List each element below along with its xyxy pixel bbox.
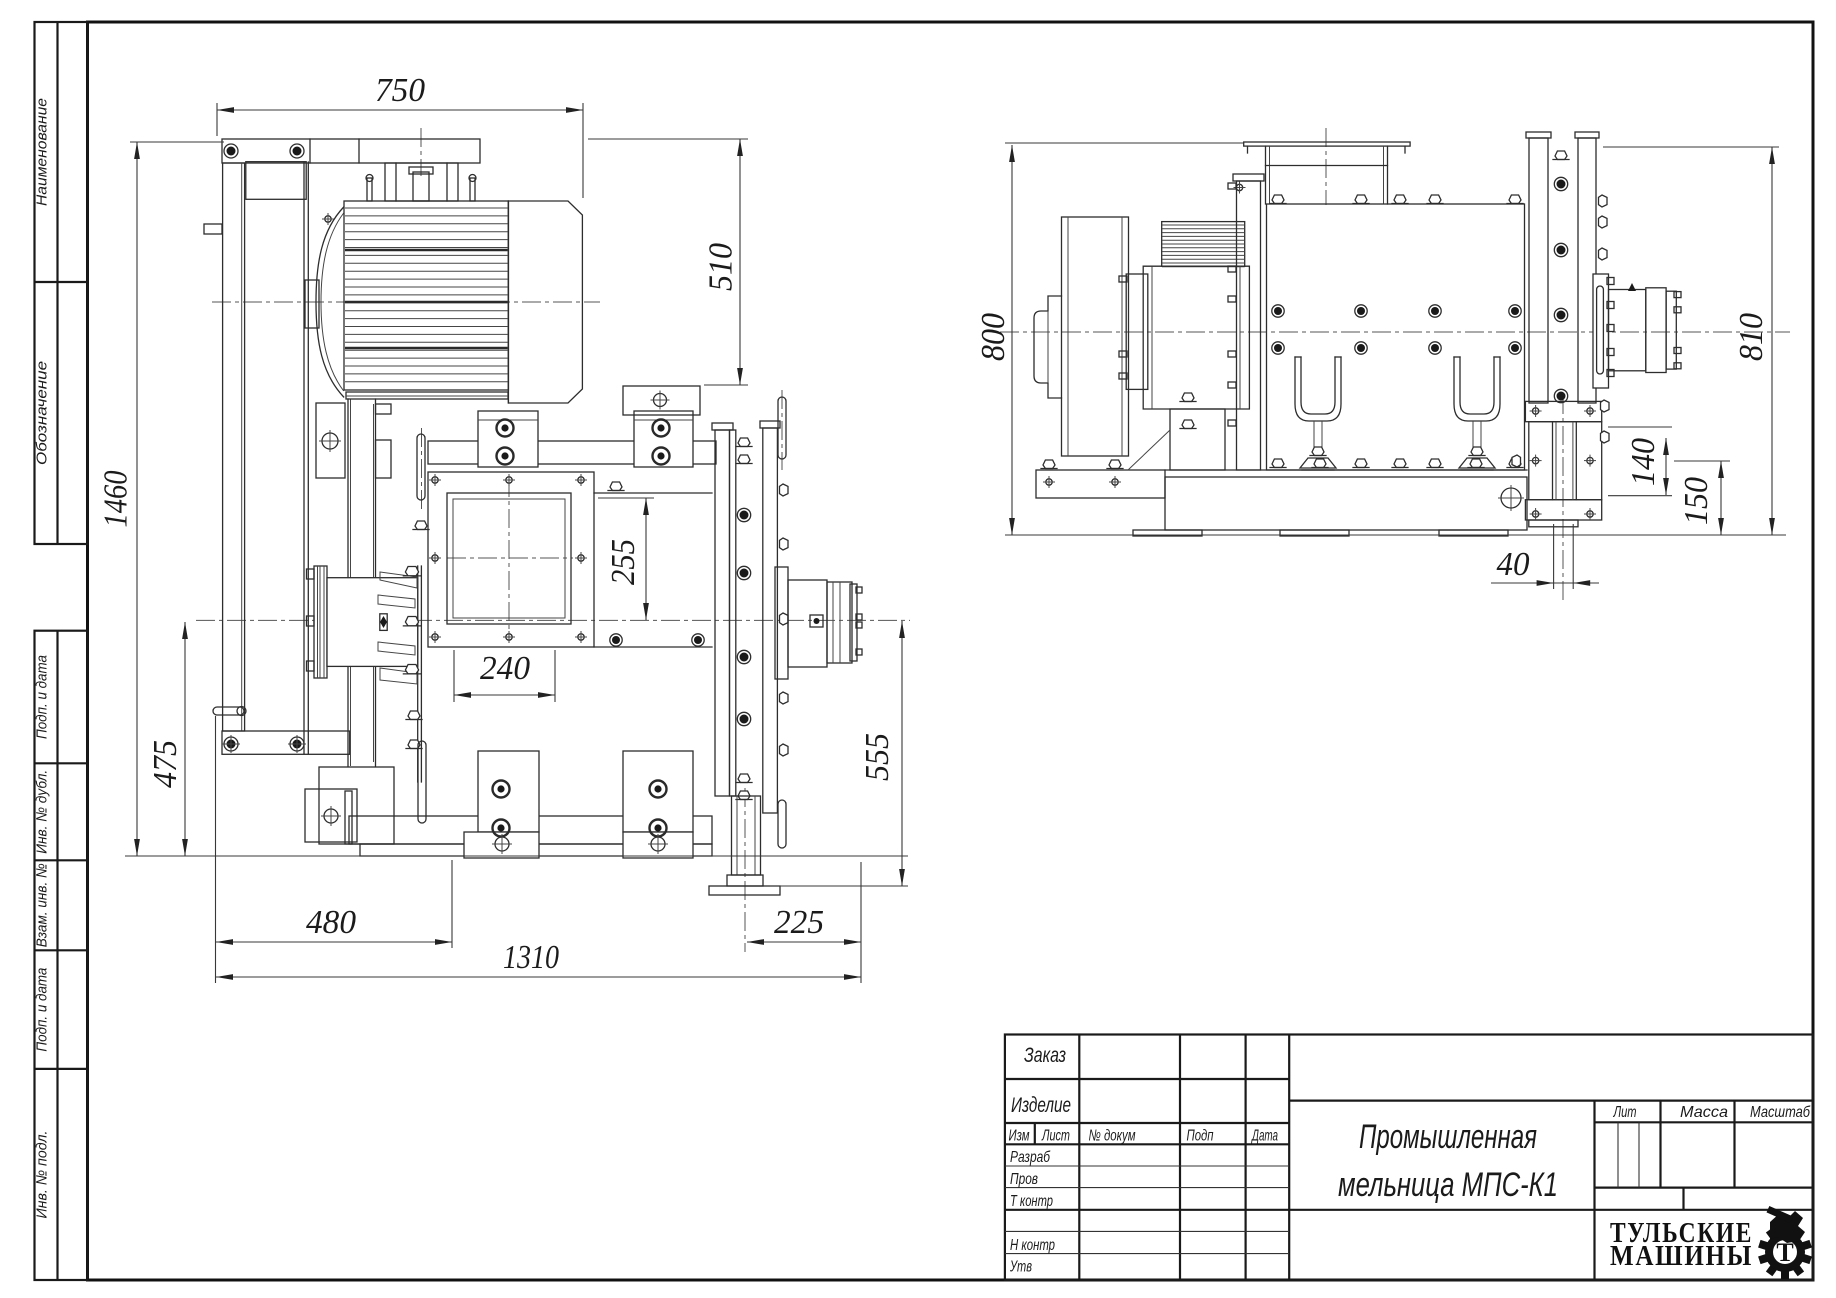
svg-text:Разраб: Разраб xyxy=(1010,1149,1051,1166)
svg-text:МАШИНЫ: МАШИНЫ xyxy=(1610,1240,1753,1272)
svg-text:240: 240 xyxy=(480,650,530,687)
svg-text:Т: Т xyxy=(1776,1238,1793,1267)
svg-text:Подп. и дата: Подп. и дата xyxy=(34,655,51,739)
svg-text:810: 810 xyxy=(1733,313,1770,361)
svg-text:Пров: Пров xyxy=(1010,1171,1038,1188)
svg-text:Масса: Масса xyxy=(1680,1104,1728,1121)
svg-text:Заказ: Заказ xyxy=(1024,1044,1066,1067)
svg-text:Подп: Подп xyxy=(1187,1128,1214,1145)
svg-text:Т контр: Т контр xyxy=(1010,1193,1053,1210)
svg-text:255: 255 xyxy=(605,539,642,585)
svg-text:Подп. и дата: Подп. и дата xyxy=(34,968,51,1052)
svg-text:Инв. № подл.: Инв. № подл. xyxy=(34,1131,51,1219)
svg-text:40: 40 xyxy=(1497,546,1530,583)
svg-text:Масштаб: Масштаб xyxy=(1750,1104,1811,1121)
svg-text:1310: 1310 xyxy=(503,939,559,976)
svg-text:мельница МПС-К1: мельница МПС-К1 xyxy=(1338,1166,1558,1204)
svg-text:480: 480 xyxy=(306,904,356,941)
svg-text:150: 150 xyxy=(1678,477,1715,525)
svg-text:Лист: Лист xyxy=(1041,1128,1070,1145)
svg-text:Дата: Дата xyxy=(1251,1128,1278,1145)
svg-text:225: 225 xyxy=(774,904,824,941)
svg-text:Н контр: Н контр xyxy=(1010,1237,1055,1254)
svg-text:Взам. инв. №: Взам. инв. № xyxy=(34,863,51,947)
svg-text:800: 800 xyxy=(975,313,1012,361)
svg-text:№ докум: № докум xyxy=(1089,1128,1136,1145)
svg-text:555: 555 xyxy=(859,733,896,781)
svg-text:475: 475 xyxy=(147,740,184,788)
svg-text:140: 140 xyxy=(1625,438,1662,486)
svg-text:750: 750 xyxy=(375,72,425,109)
svg-text:510: 510 xyxy=(703,243,740,291)
svg-text:Обозначение: Обозначение xyxy=(34,361,51,465)
svg-text:1460: 1460 xyxy=(98,471,135,528)
svg-text:Изделие: Изделие xyxy=(1011,1094,1071,1117)
svg-text:Наименование: Наименование xyxy=(34,98,51,206)
svg-text:Промышленная: Промышленная xyxy=(1359,1118,1537,1156)
svg-text:Лит: Лит xyxy=(1613,1104,1637,1121)
svg-text:Инв. № дубл.: Инв. № дубл. xyxy=(34,770,51,854)
svg-text:Изм: Изм xyxy=(1009,1128,1030,1145)
svg-text:Утв: Утв xyxy=(1009,1259,1032,1276)
